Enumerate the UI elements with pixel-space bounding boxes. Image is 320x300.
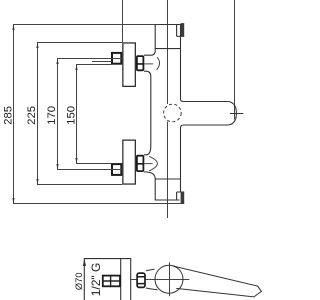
svg-text:225: 225 xyxy=(26,106,38,125)
svg-text:170: 170 xyxy=(46,106,58,125)
svg-text:285: 285 xyxy=(2,106,14,125)
svg-text:Ø70: Ø70 xyxy=(74,273,84,291)
svg-text:1/2" G: 1/2" G xyxy=(89,263,103,297)
svg-text:150: 150 xyxy=(66,106,78,125)
